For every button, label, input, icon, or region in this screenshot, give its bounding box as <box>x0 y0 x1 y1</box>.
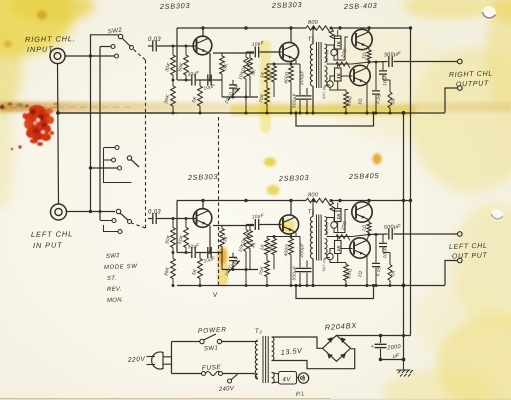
wire jack2 to switch <box>67 211 115 213</box>
svg-text:+: + <box>371 344 375 350</box>
svg-text:OUT PUT: OUT PUT <box>452 252 488 260</box>
svg-text:200µF: 200µF <box>299 69 305 86</box>
resistor 1K ch1 <box>266 64 268 66</box>
wire Q4 emitter down ch1 <box>366 84 368 114</box>
punch hole top right <box>482 6 496 20</box>
svg-text:220V: 220V <box>127 356 146 364</box>
wire cluster to bus ch2 <box>245 270 247 286</box>
wire output node ch2 <box>368 233 370 235</box>
svg-text:MODE SW: MODE SW <box>104 264 138 271</box>
wire T primary bottom to bus ch1 <box>312 86 314 113</box>
capacitor 0.1 ch1 <box>232 80 234 85</box>
wire terminal 2 down to bus ch2 <box>445 261 458 286</box>
resistor 20 ohm mid ch2 <box>336 235 350 241</box>
svg-text:T₂: T₂ <box>308 209 315 216</box>
resistor 5K ch2 <box>199 253 201 259</box>
svg-text:2SB303: 2SB303 <box>159 1 191 11</box>
diode SD7-08 upper ch2 <box>331 222 337 228</box>
T core <box>316 42 318 88</box>
wire emitter node line ch2 <box>177 252 191 254</box>
wire collector node ch2 <box>213 225 254 227</box>
wire jack1 to switch <box>65 55 115 57</box>
transistor Q1 2SB303 ch2 <box>193 209 212 228</box>
dashed separator mid <box>218 117 220 287</box>
svg-text:REV.: REV. <box>107 286 122 293</box>
svg-text:2SB303: 2SB303 <box>187 172 219 182</box>
wire 1K box leads ch2 <box>337 203 339 233</box>
fuse element <box>202 372 206 376</box>
T secondary winding lower ch2 <box>325 239 328 259</box>
highlighter overlay marks <box>4 11 416 287</box>
wire secondary lower to Q4 base ch2 <box>327 237 353 263</box>
wire secondary top to base ch1 <box>327 37 349 60</box>
rail x90 middle segment <box>90 56 92 212</box>
switch SW2 bank2 blade pivot <box>127 156 131 160</box>
wire bank1 common feed <box>91 35 119 56</box>
svg-text:OUTPUT: OUTPUT <box>456 80 489 88</box>
wire plug to splitter <box>163 342 172 374</box>
capacitor 0.03 ch2 <box>148 218 153 220</box>
switch SW2 bank3 blade <box>120 213 129 221</box>
resistor 56K ch1 <box>273 64 275 66</box>
resistor 3K second ch2 <box>249 226 251 231</box>
T3 core <box>262 336 264 383</box>
diode SD7-06 lower ch2 <box>327 253 333 259</box>
wire bank1 contact b feed <box>100 46 111 48</box>
svg-text:2SB303: 2SB303 <box>271 0 303 10</box>
switch SW2 bank2 contact c <box>118 166 122 170</box>
resistor 5K ch1 <box>199 80 201 86</box>
resistor 3K second ch1 <box>249 53 251 58</box>
output terminal 1 ch2 <box>458 232 463 237</box>
wire bottom bus ch1 <box>58 112 445 114</box>
capacitor 10uF ch1 <box>208 75 211 86</box>
resistor 50K ch1 <box>185 46 187 55</box>
svg-text:800: 800 <box>308 193 319 199</box>
svg-text:500µF: 500µF <box>292 265 298 281</box>
T secondary winding upper ch1 <box>325 44 327 62</box>
wire Q4 collector up to node ch1 <box>367 62 369 68</box>
wire bottom bus ch2 <box>177 285 445 287</box>
wire 1K box leads ch1 <box>337 30 339 60</box>
capacitor 30uF ch2 <box>192 247 195 258</box>
svg-text:P.L: P.L <box>296 391 306 398</box>
crease line across sheet <box>0 102 511 112</box>
wire node line lower ch1 <box>222 96 258 98</box>
resistor 36K ch1 <box>172 80 174 86</box>
resistor 10K-ohm ch1 <box>245 53 247 57</box>
red ink stain blob <box>0 102 59 150</box>
svg-text:SD7-06: SD7-06 <box>322 258 326 271</box>
capacitor 30uF ch1 <box>192 75 195 86</box>
node dots bottom bus ch2 <box>172 284 175 287</box>
wire Q1 collector to bus ch1 <box>202 28 204 37</box>
svg-text:2SB303: 2SB303 <box>278 173 310 183</box>
svg-text:SD7-08: SD7-08 <box>325 222 329 235</box>
capacitor 200uF ch2 <box>299 237 301 268</box>
switch SW2 bank3 contact b <box>112 219 116 223</box>
svg-text:SD7-08: SD7-08 <box>325 50 329 63</box>
svg-text:ST.: ST. <box>107 276 117 282</box>
capacitor 10uF output ch2 <box>382 235 384 243</box>
4V pilot lamp box <box>279 372 297 385</box>
wire Q2 collector to bus ch1 <box>290 28 292 43</box>
capacitor 500uF ch2 <box>306 261 308 268</box>
svg-text:MON.: MON. <box>107 297 124 304</box>
svg-text:SD7-06: SD7-06 <box>322 86 326 99</box>
resistor 20 ohm lower ch2 <box>345 263 347 265</box>
resistor 1K ch2 <box>266 237 268 239</box>
svg-text:T₃: T₃ <box>255 328 263 335</box>
resistor 3K ch2 <box>221 226 223 229</box>
wire T primary top ch2 <box>312 209 315 217</box>
svg-text:1K: 1K <box>336 40 341 47</box>
wire secondary lower to Q4 base ch1 <box>327 64 353 90</box>
svg-text:FUSE: FUSE <box>202 364 222 372</box>
wire 13.5V bottom to bridge <box>272 349 355 369</box>
switch SW2 bank1 common <box>118 34 122 38</box>
transistor Q2 2SB303 driver ch2 <box>279 215 298 234</box>
T3 secondary 4V winding <box>272 373 275 384</box>
switch SW2 bank3 contact c <box>118 230 122 234</box>
switch SW2 bank3 common <box>116 209 120 213</box>
right chl input jack <box>50 48 65 63</box>
wire Q4 emitter down ch2 <box>366 256 368 286</box>
wire Q4 collector up to node ch2 <box>367 235 369 241</box>
svg-text:800: 800 <box>308 20 319 26</box>
resistor 20 ohm lower ch1 <box>345 90 347 92</box>
capacitor 0.05 ch1 <box>375 62 377 90</box>
wire vertical rail x100 <box>99 47 101 221</box>
resistor 20 ohm mid ch1 <box>336 62 350 68</box>
resistor 1K right ch1 <box>383 79 390 81</box>
svg-text:0.03: 0.03 <box>148 37 161 43</box>
T secondary winding upper ch2 <box>325 217 327 235</box>
wire top supply bus ch2 <box>177 200 411 202</box>
wire T primary top ch1 <box>312 36 315 44</box>
wire bank2 contact a feed <box>104 147 115 149</box>
capacitor 0.03 ch1 <box>148 45 153 47</box>
wire 13.5V top to bridge <box>272 337 322 348</box>
output terminal 2 ch2 <box>458 258 463 263</box>
wire emitter node line ch1 <box>177 79 191 81</box>
wire left branch ch1 <box>176 28 178 80</box>
diode SD7-06 lower ch1 <box>327 81 333 87</box>
bridge rectifier K204BX <box>323 335 351 361</box>
output terminal 2 ch1 <box>458 86 463 91</box>
wire ch1 bus left extension <box>58 112 177 114</box>
wire 4V winding to box <box>272 373 279 375</box>
wire feedback loop ch2 <box>296 286 374 299</box>
switch SW2 bank1 contact b <box>111 45 115 49</box>
svg-text:LEFT CHL: LEFT CHL <box>449 243 488 251</box>
wire fuse to transformer <box>223 373 255 375</box>
switch SW2 bank1 blade <box>122 38 131 47</box>
resistor 800 ohm ch1 <box>306 26 330 33</box>
wire bank2 contact c feed <box>91 167 118 169</box>
wire bank3 contact b feed <box>100 220 112 222</box>
capacitor 200uF ch1 <box>299 64 301 95</box>
wire terminal 2 down to bus ch1 <box>445 88 458 113</box>
transistor Q4 2SB405 output lower ch2 <box>350 238 370 258</box>
resistor 400 ohm Q2 emitter ch1 <box>290 61 292 66</box>
resistor 1 ohm emitter ch2 <box>368 221 370 223</box>
wire Q3 collector to bus ch1 <box>368 28 370 31</box>
resistor 30K ch1 <box>172 46 174 55</box>
resistor 10K lower ch2 <box>266 255 268 261</box>
wire to SW1 <box>172 341 200 343</box>
wire bank3 contact c feed <box>104 225 118 232</box>
svg-text:200µF: 200µF <box>299 242 305 259</box>
wire Q1 emitter down ch2 <box>209 226 211 253</box>
svg-text:300µF: 300µF <box>384 51 402 58</box>
switch SW2 bank1 contact c <box>115 54 119 58</box>
resistor 800 ohm ch2 <box>306 198 330 205</box>
wire T primary bottom to bus ch2 <box>312 259 314 286</box>
mains plug <box>152 352 163 369</box>
svg-text:SW1: SW1 <box>204 345 219 353</box>
svg-text:SW2: SW2 <box>106 253 121 260</box>
switch SW2 bank2 blade <box>131 160 139 168</box>
variable resistor 10K-ohm arrow ch2 <box>228 261 240 273</box>
T secondary winding lower ch1 <box>325 66 328 86</box>
capacitor 0.05 ch2 <box>375 235 377 263</box>
bottom sheet edge <box>0 398 330 400</box>
resistor 30K ch2 <box>172 219 174 228</box>
rail A ground vertical <box>403 113 405 360</box>
svg-text:INPUT: INPUT <box>27 45 54 54</box>
wire rail x103 <box>104 148 132 183</box>
capacitor 10uF output ch1 <box>382 62 384 70</box>
diode SD7-08 upper ch1 <box>331 49 337 55</box>
resistor 300 bias diag ch2 <box>330 201 342 212</box>
wire Q3 collector to bus ch2 <box>368 201 370 204</box>
wire Q1 collector to bus ch2 <box>202 201 204 210</box>
switch SW2 bank2 contact a <box>115 146 119 150</box>
capacitor 10uF ch2 <box>208 247 211 258</box>
node dots on top bus ch1 <box>201 26 204 29</box>
wire DC minus bus <box>381 359 404 361</box>
capacitor 500uF ch1 <box>306 88 308 95</box>
node dots bottom bus ch1 <box>172 112 175 115</box>
transistor Q3 2SB403 output upper ch1 <box>352 29 372 49</box>
transistor Q4 2SB403 output lower ch1 <box>350 65 370 85</box>
wire splitter to fuse <box>172 373 202 375</box>
mechanical link dashed <box>134 50 146 61</box>
capacitor 10uF coupling ch2 <box>246 224 254 226</box>
switch SW2 bank2 contact b <box>112 158 116 162</box>
resistor 50K ch2 <box>185 219 187 228</box>
resistor 1K boxed lower ch2 <box>335 241 342 254</box>
resistor 3K ch1 <box>221 53 223 56</box>
T primary coil ch2 <box>310 217 313 259</box>
resistor 1K boxed upper ch2 <box>335 209 342 222</box>
capacitor 0.1 ch2 <box>232 253 234 258</box>
svg-text:2SB·403: 2SB·403 <box>343 1 378 11</box>
capacitor 10uF coupling ch1 <box>246 51 254 53</box>
transistor Q2 2SB303 driver ch1 <box>279 42 298 61</box>
svg-text:RIGHT CHL.: RIGHT CHL. <box>25 34 76 44</box>
wire node line lower ch2 <box>222 269 258 271</box>
resistor 300 bias diag ch1 <box>330 28 342 39</box>
resistor 10K-ohm ch2 <box>245 226 247 230</box>
wire collector node ch1 <box>213 52 254 54</box>
resistor 10K lower ch1 <box>266 82 268 88</box>
output terminal 1 ch1 <box>458 59 463 64</box>
svg-text:2SB405: 2SB405 <box>348 171 380 181</box>
resistor 1K boxed lower ch1 <box>335 68 342 81</box>
wire left branch ch2 <box>176 201 178 253</box>
resistor 1 ohm emitter ch1 <box>368 48 370 50</box>
left chl input jack <box>51 204 67 220</box>
transistor Q1 2SB303 ch1 <box>193 36 212 55</box>
capacitor 300µF output coupling ch1 <box>369 61 388 64</box>
svg-text:IN PUT: IN PUT <box>33 240 63 250</box>
wire Q2 emitter node ch2 <box>295 233 297 237</box>
240V tap terminal <box>228 379 232 383</box>
resistor 56K ch2 <box>273 237 275 239</box>
ground symbol <box>403 360 405 370</box>
resistor 1K boxed upper ch1 <box>335 36 342 49</box>
resistor 36K ch2 <box>172 253 174 259</box>
svg-text:240V: 240V <box>218 386 235 393</box>
wire Q2 emitter node ch1 <box>295 60 297 64</box>
svg-text:1K: 1K <box>336 245 341 252</box>
transistor Q3 2SB405 output upper ch2 <box>352 202 372 222</box>
wire SW1 to transformer <box>222 341 255 343</box>
capacitor 500µF output coupling ch2 <box>369 233 388 236</box>
switch SW1 <box>200 339 204 343</box>
rail B supply vertical <box>410 28 412 336</box>
wire cluster to bus ch1 <box>245 97 247 113</box>
wire output node ch1 <box>368 60 370 62</box>
capacitor 2000uF <box>380 336 382 344</box>
svg-text:1K: 1K <box>336 213 341 220</box>
wire Q1 emitter down ch1 <box>209 53 211 80</box>
wire Q2 collector to bus ch2 <box>290 201 292 216</box>
resistor 1K right ch2 <box>383 252 390 254</box>
resistor 400 ohm Q2 emitter ch2 <box>290 234 292 239</box>
T3 secondary 13.5V winding <box>272 337 274 361</box>
wire feedback loop ch1 <box>296 113 374 126</box>
pilot lamp P.L <box>298 373 308 383</box>
T core <box>316 215 318 261</box>
T primary coil ch1 <box>310 44 313 86</box>
wire secondary top to base ch2 <box>327 210 349 233</box>
svg-text:500µF: 500µF <box>384 224 402 231</box>
svg-text:1K: 1K <box>336 72 341 79</box>
wire ground link jack1 to jack2 <box>58 64 59 204</box>
wire DC plus bus <box>337 334 411 336</box>
svg-text:4V: 4V <box>282 376 291 384</box>
svg-text:LEFT CHL: LEFT CHL <box>31 229 73 239</box>
svg-text:µF: µF <box>393 353 401 360</box>
svg-text:0.03: 0.03 <box>148 210 161 216</box>
node dots on top bus ch2 <box>201 199 204 202</box>
wire bank2 contact b feed <box>104 159 112 161</box>
T3 primary coil <box>255 341 258 343</box>
variable resistor 10K-ohm arrow ch1 <box>228 88 240 100</box>
punch hole right middle <box>491 209 503 221</box>
wire top supply bus ch1 <box>177 27 411 29</box>
